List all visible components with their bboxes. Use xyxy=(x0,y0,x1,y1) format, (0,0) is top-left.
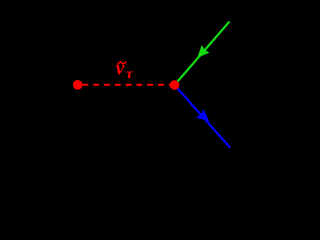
wire: dashed red propagator (sneutrino line) xyxy=(73,84,175,86)
arrowhead on blue line (points away from vertex) xyxy=(196,109,209,121)
node: right vertex dot xyxy=(170,80,180,90)
label: nu-tilde-tau (sneutrino) xyxy=(116,59,134,82)
wire: blue outgoing particle line xyxy=(175,85,231,148)
wire: green incoming particle line xyxy=(175,22,230,86)
svg-text:τ: τ xyxy=(126,67,134,82)
arrowhead on green line (points toward vertex) xyxy=(197,45,209,58)
node: left vertex dot xyxy=(73,80,83,90)
